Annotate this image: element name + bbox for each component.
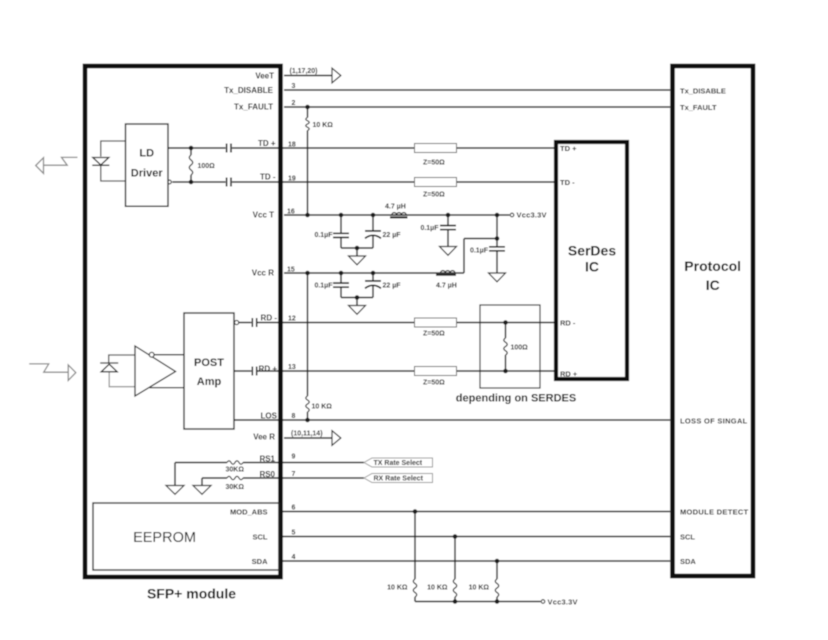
svg-text:16: 16 [287,209,295,216]
svg-text:19: 19 [288,176,296,183]
svg-text:IC: IC [585,259,599,275]
svg-text:5: 5 [292,530,296,537]
svg-text:2: 2 [292,100,296,107]
svg-text:RX Rate Select: RX Rate Select [374,476,424,483]
svg-text:Vee R: Vee R [253,433,275,442]
svg-text:0.1µF: 0.1µF [314,283,333,290]
svg-text:POST: POST [194,357,224,369]
svg-text:TD -: TD - [260,172,276,181]
svg-text:RS1: RS1 [259,455,275,464]
svg-text:0.1µF: 0.1µF [420,225,439,232]
svg-text:LOSS OF SINGAL: LOSS OF SINGAL [680,417,748,426]
svg-text:RS0: RS0 [259,470,275,479]
svg-text:SCL: SCL [253,533,268,542]
svg-text:RD +: RD + [560,370,578,379]
svg-text:30KΩ: 30KΩ [226,484,245,491]
svg-text:(1,17,20): (1,17,20) [290,68,318,75]
svg-text:100Ω: 100Ω [511,345,529,352]
svg-text:10 KΩ: 10 KΩ [312,404,333,411]
svg-text:SFP+ module: SFP+ module [147,586,236,602]
svg-text:10 KΩ: 10 KΩ [387,585,408,592]
svg-text:8: 8 [292,413,296,420]
svg-text:LOS: LOS [261,412,278,421]
svg-text:Tx_DISABLE: Tx_DISABLE [224,86,274,95]
svg-text:9: 9 [292,454,296,461]
svg-text:RD -: RD - [261,314,278,323]
svg-text:10 KΩ: 10 KΩ [427,585,448,592]
svg-text:Tx_FAULT: Tx_FAULT [234,103,273,112]
svg-text:IC: IC [706,277,720,293]
svg-text:0.1µF: 0.1µF [470,248,489,255]
svg-text:Protocol: Protocol [684,258,741,274]
svg-text:6: 6 [292,505,296,512]
svg-text:100Ω: 100Ω [198,163,216,170]
svg-text:Z=50Ω: Z=50Ω [423,160,445,167]
svg-text:SDA: SDA [680,557,696,566]
svg-text:Tx_DISABLE: Tx_DISABLE [680,87,726,96]
svg-text:TD -: TD - [560,178,575,187]
svg-text:0.1µF: 0.1µF [314,232,333,239]
svg-text:7: 7 [292,471,296,478]
svg-text:30KΩ: 30KΩ [226,467,245,474]
svg-text:SerDes: SerDes [568,243,616,259]
svg-text:4: 4 [292,554,296,561]
svg-text:EEPROM: EEPROM [133,530,196,546]
svg-text:Z=50Ω: Z=50Ω [423,380,445,387]
svg-text:18: 18 [288,142,296,149]
svg-text:TD +: TD + [560,144,577,153]
svg-text:(10,11,14): (10,11,14) [291,431,323,438]
svg-text:depending on SERDES: depending on SERDES [456,393,576,405]
svg-text:Driver: Driver [131,168,164,180]
svg-text:MOD_ABS: MOD_ABS [230,508,268,517]
svg-text:MODULE DETECT: MODULE DETECT [680,508,749,517]
svg-text:10 KΩ: 10 KΩ [469,585,490,592]
svg-text:SDA: SDA [252,557,268,566]
svg-text:Z=50Ω: Z=50Ω [423,192,445,199]
svg-text:12: 12 [288,316,296,323]
svg-text:22 µF: 22 µF [383,232,402,239]
svg-text:Tx_FAULT: Tx_FAULT [680,103,717,112]
svg-text:4.7 µH: 4.7 µH [436,283,457,290]
svg-text:Vcc T: Vcc T [253,211,274,220]
svg-text:TD +: TD + [258,139,276,148]
svg-text:LD: LD [139,147,154,159]
svg-text:22 µF: 22 µF [383,283,402,290]
svg-text:Vcc R: Vcc R [252,269,274,278]
svg-text:Z=50Ω: Z=50Ω [423,331,445,338]
svg-text:RD -: RD - [560,319,576,328]
svg-text:VeeT: VeeT [255,71,274,80]
svg-text:TX Rate Select: TX Rate Select [374,460,423,467]
svg-text:Amp: Amp [197,376,222,388]
svg-text:15: 15 [287,267,295,274]
svg-text:3: 3 [292,83,296,90]
svg-text:SCL: SCL [680,533,695,542]
svg-text:Vcc3.3V: Vcc3.3V [548,598,578,607]
svg-text:10 KΩ: 10 KΩ [313,122,334,129]
svg-text:Vcc3.3V: Vcc3.3V [517,211,547,220]
svg-text:13: 13 [288,364,296,371]
svg-text:RD +: RD + [259,364,278,373]
svg-text:4.7 µH: 4.7 µH [385,204,406,211]
